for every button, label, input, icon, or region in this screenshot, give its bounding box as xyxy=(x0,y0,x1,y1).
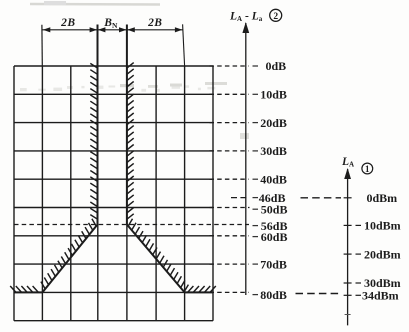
level 30dB xyxy=(210,150,249,152)
svg-text:60dB: 60dB xyxy=(261,230,288,244)
svg-text:2B: 2B xyxy=(60,17,75,29)
mask left vertical xyxy=(97,25,99,225)
svg-text:1: 1 xyxy=(365,164,370,174)
level 0dB xyxy=(210,65,249,67)
svg-text:2B: 2B xyxy=(147,17,162,29)
level 70dB xyxy=(210,263,249,265)
level 34dBm xyxy=(344,294,352,296)
level 60dB xyxy=(210,235,249,237)
mask right vertical xyxy=(126,25,128,225)
level 10dB xyxy=(210,93,249,95)
svg-text:40dB: 40dB xyxy=(260,172,287,186)
level 30dBm xyxy=(344,282,352,284)
svg-text:80dB: 80dB xyxy=(260,288,287,302)
level 20dBm xyxy=(344,253,352,255)
mask right diagonal xyxy=(127,225,185,293)
level 50dB xyxy=(210,207,250,209)
level 56dB xyxy=(253,225,259,227)
svg-text:50dB: 50dB xyxy=(261,202,288,216)
dimension line xyxy=(42,29,183,31)
level 40dB xyxy=(210,178,249,180)
mask right horizontal xyxy=(185,291,213,293)
svg-text:70dB: 70dB xyxy=(260,257,287,271)
dim tick left xyxy=(41,25,43,66)
svg-text:2: 2 xyxy=(273,12,278,22)
axis 2 arrowhead xyxy=(242,22,249,33)
axis 1 line xyxy=(347,169,349,325)
level 0dBm xyxy=(344,197,352,199)
noise band xyxy=(20,88,27,91)
grid xyxy=(13,66,15,321)
hatch right diagonal xyxy=(128,219,132,226)
hatch right horizontal xyxy=(188,286,194,292)
long dash 80dB to axis1 xyxy=(296,293,340,295)
level 10dBm xyxy=(344,224,352,226)
axis 2 circled 2 xyxy=(270,9,282,21)
long dash 46dB to axis1 xyxy=(301,197,342,199)
svg-text:10dB: 10dB xyxy=(260,88,287,102)
level 80dB xyxy=(210,291,249,293)
hatch right vertical xyxy=(127,63,134,68)
svg-text:34dBm: 34dBm xyxy=(362,289,399,303)
axis 1 circled 1 xyxy=(362,163,373,174)
dashed 56dB line xyxy=(14,224,249,226)
svg-text:20dBm: 20dBm xyxy=(364,247,401,261)
axis 2 line xyxy=(245,23,247,295)
top faint scan haze xyxy=(30,3,160,6)
hatch left vertical xyxy=(90,63,97,68)
level 20dB xyxy=(210,122,249,124)
level 46dB xyxy=(231,197,250,199)
dim arrows xyxy=(43,27,51,32)
svg-text:0dB: 0dB xyxy=(266,59,287,73)
axis 1 arrowhead xyxy=(344,168,351,179)
dim tick right + leader xyxy=(183,24,185,66)
svg-text:10dBm: 10dBm xyxy=(364,219,401,233)
svg-text:LA - La: LA - La xyxy=(229,11,263,24)
mask left horizontal xyxy=(14,291,42,293)
hatch left horizontal xyxy=(10,286,16,292)
mask left diagonal xyxy=(42,225,97,293)
hatch left diagonal xyxy=(92,219,96,226)
svg-text:30dB: 30dB xyxy=(260,144,287,158)
svg-text:20dB: 20dB xyxy=(260,116,287,130)
svg-text:0dBm: 0dBm xyxy=(367,191,398,205)
